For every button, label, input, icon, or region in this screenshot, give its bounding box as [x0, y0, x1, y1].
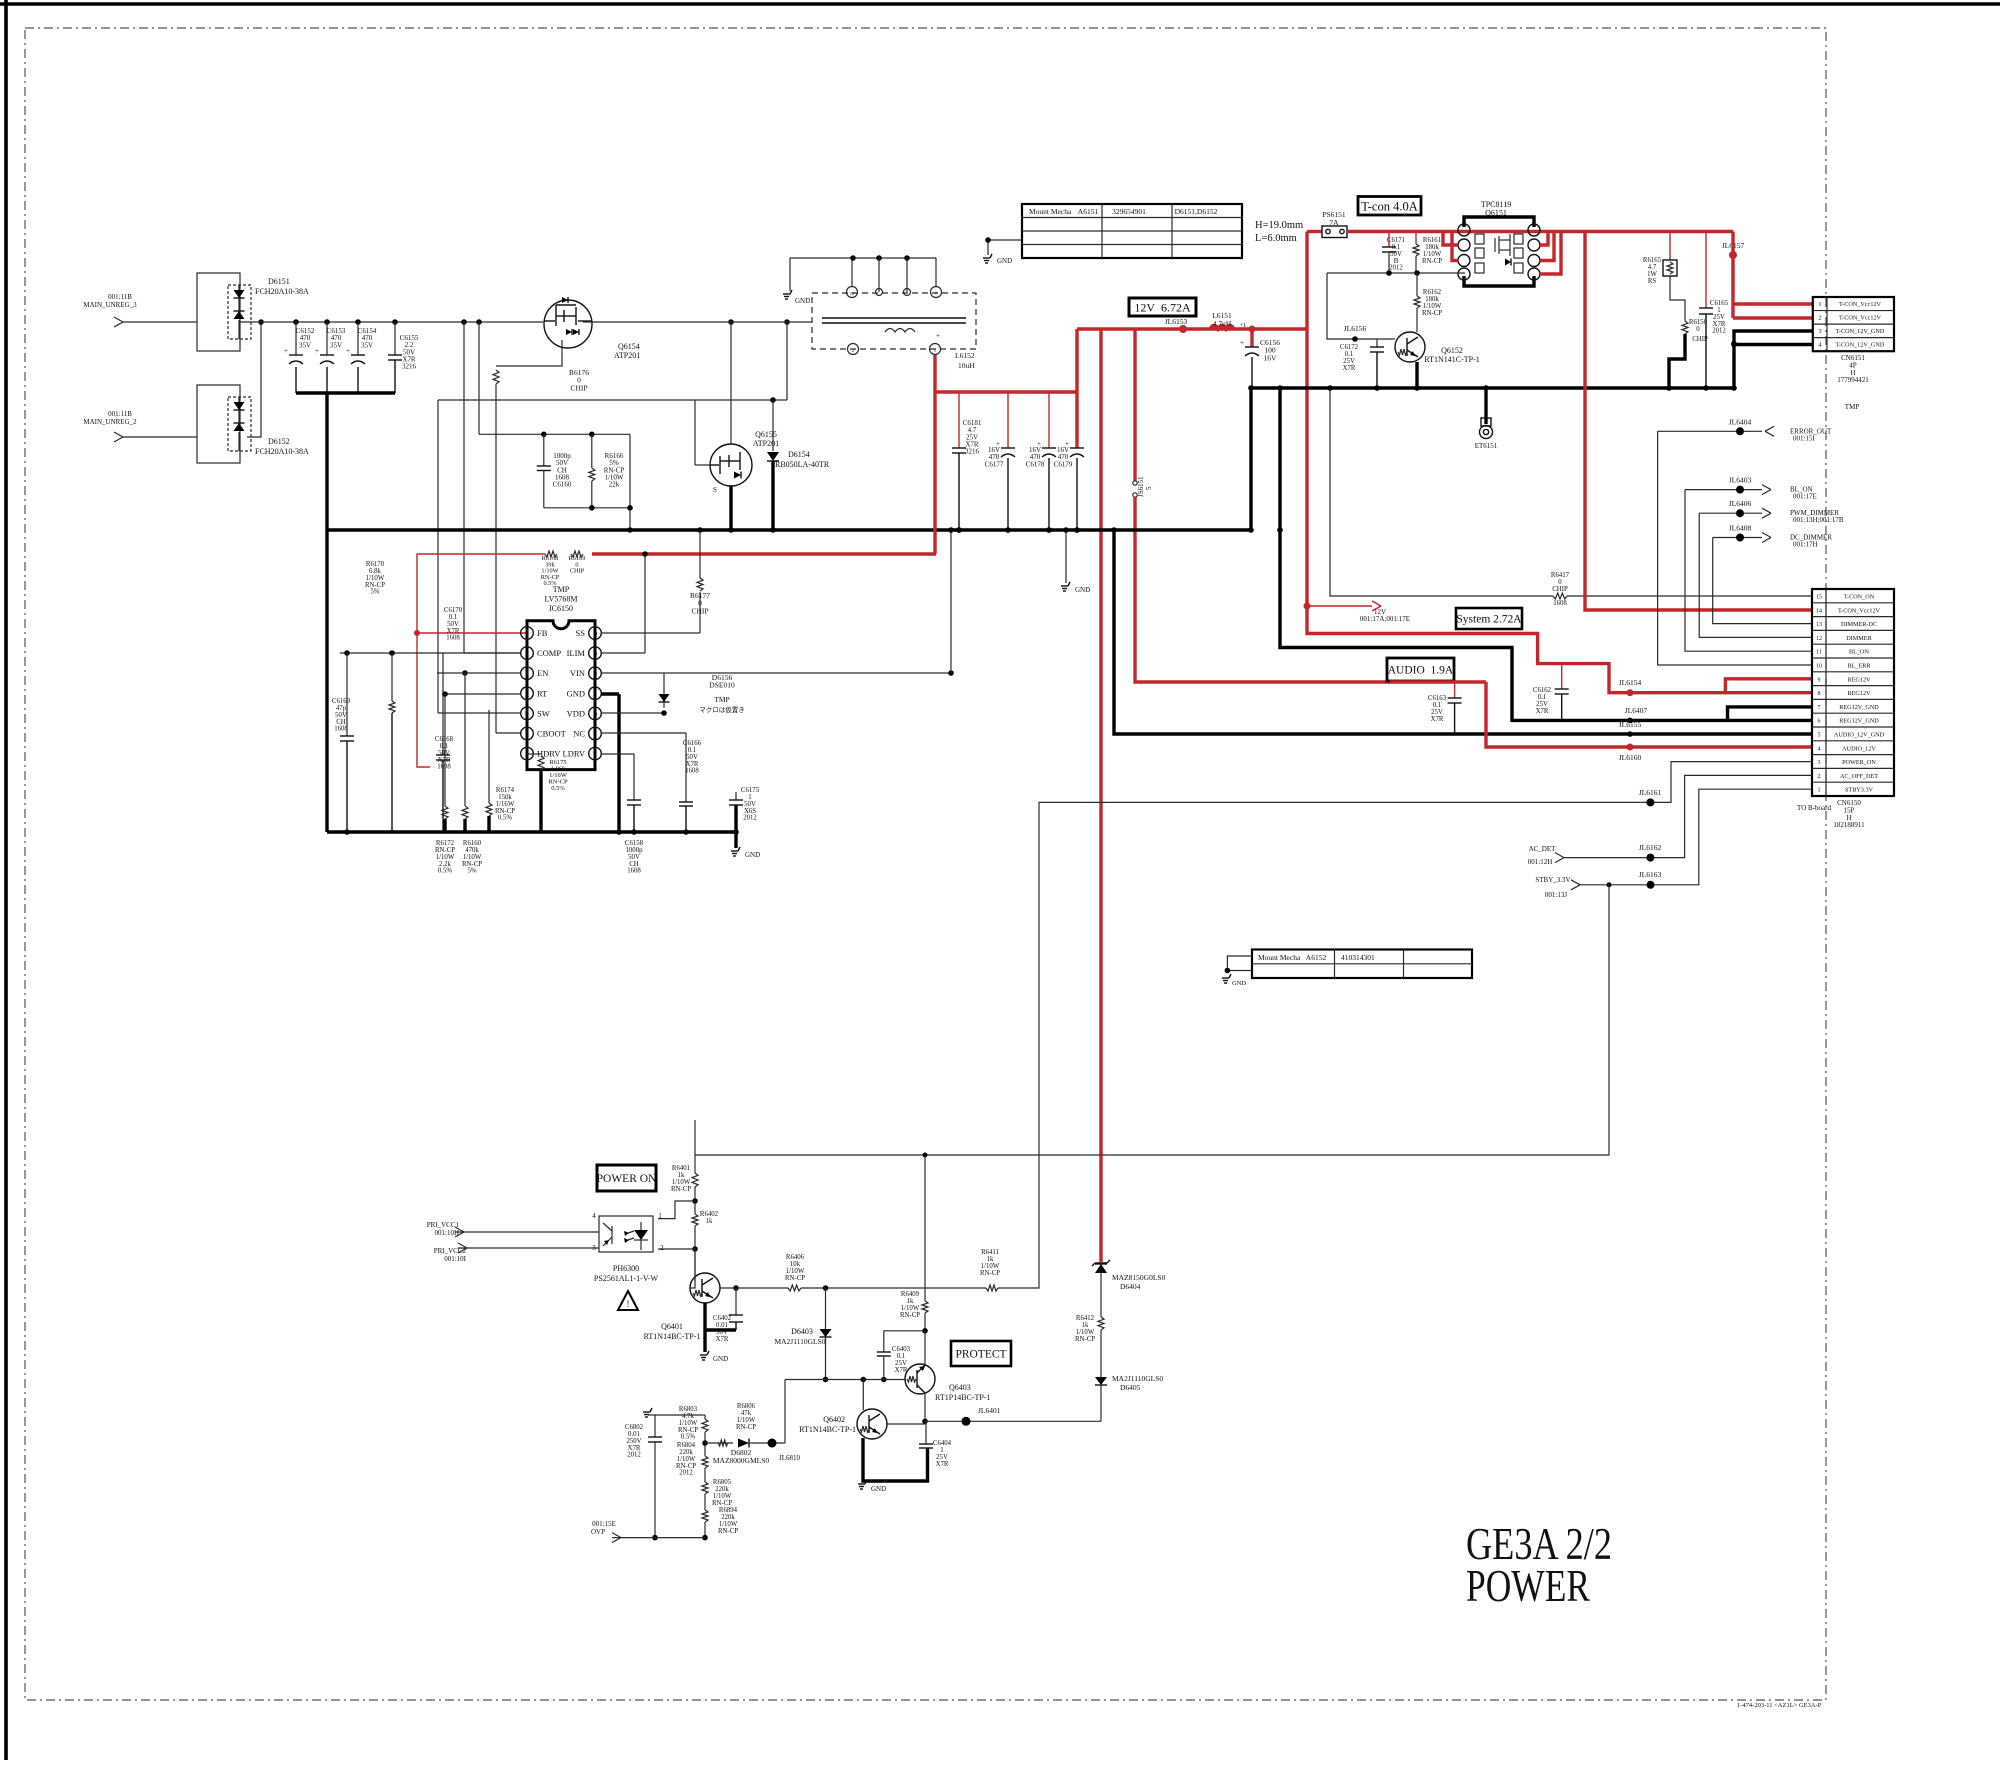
- svg-text:PROTECT: PROTECT: [955, 1349, 1006, 1361]
- svg-text:0.5%: 0.5%: [438, 868, 452, 875]
- svg-text:3: 3: [1818, 760, 1821, 766]
- svg-text:FB: FB: [537, 628, 548, 638]
- svg-text:177994421: 177994421: [1837, 376, 1869, 384]
- svg-text:329654901: 329654901: [1112, 207, 1146, 216]
- svg-text:RN-CP: RN-CP: [785, 1275, 805, 1282]
- svg-text:RN-CP: RN-CP: [718, 1528, 738, 1535]
- svg-text:2: 2: [852, 348, 854, 353]
- svg-text:JL6153: JL6153: [1165, 317, 1188, 326]
- svg-text:+1: +1: [1240, 323, 1246, 329]
- svg-text:RN-CP: RN-CP: [671, 1186, 691, 1193]
- svg-text:SS: SS: [576, 628, 586, 638]
- svg-text:MAIN_UNREG_2: MAIN_UNREG_2: [83, 418, 137, 426]
- svg-text:4.7uH: 4.7uH: [1213, 319, 1232, 328]
- svg-text:14: 14: [1816, 608, 1822, 614]
- svg-text:JL6404: JL6404: [1729, 417, 1752, 426]
- svg-text:BL_ON: BL_ON: [1849, 649, 1869, 656]
- svg-text:STBY_3.3V: STBY_3.3V: [1535, 876, 1570, 884]
- svg-text:2: 2: [660, 1244, 664, 1252]
- svg-text:D6403: D6403: [791, 1327, 813, 1336]
- svg-text:10: 10: [593, 711, 598, 716]
- svg-text:POWER_ON: POWER_ON: [1842, 759, 1876, 766]
- svg-text:D6152: D6152: [268, 437, 290, 446]
- svg-text:7A: 7A: [1329, 218, 1339, 227]
- svg-text:GND: GND: [745, 851, 760, 859]
- svg-text:RB050LA-40TR: RB050LA-40TR: [775, 460, 830, 469]
- svg-text:0: 0: [1696, 326, 1700, 333]
- svg-text:GND: GND: [1232, 980, 1246, 987]
- svg-text:001:13H;001:17B: 001:13H;001:17B: [1793, 516, 1844, 524]
- svg-text:STBY3.3V: STBY3.3V: [1845, 787, 1874, 794]
- svg-text:S: S: [713, 486, 717, 494]
- svg-text:2012: 2012: [679, 1470, 693, 1477]
- svg-text:+: +: [1240, 339, 1244, 347]
- svg-text:410314301: 410314301: [1341, 953, 1375, 962]
- svg-text:DIMMER: DIMMER: [1846, 635, 1872, 642]
- svg-text:5%: 5%: [467, 868, 476, 875]
- svg-text:2: 2: [1818, 774, 1821, 780]
- svg-text:1: 1: [1818, 301, 1821, 308]
- svg-text:JL6810: JL6810: [779, 1454, 801, 1462]
- svg-text:PS2561AL1-1-V-W: PS2561AL1-1-V-W: [594, 1274, 659, 1283]
- svg-text:!: !: [627, 1299, 630, 1309]
- svg-text:16V: 16V: [1264, 353, 1278, 362]
- svg-text:JS6151: JS6151: [1137, 476, 1145, 497]
- svg-text:FCH20A10-38A: FCH20A10-38A: [255, 287, 309, 296]
- svg-text:001:12H: 001:12H: [1528, 858, 1553, 866]
- svg-text:VIN: VIN: [570, 668, 585, 678]
- svg-text:AUDIO_12V_GND: AUDIO_12V_GND: [1834, 732, 1885, 739]
- svg-text:TMP: TMP: [553, 585, 570, 594]
- svg-text:REG12V: REG12V: [1847, 676, 1871, 683]
- svg-text:RS: RS: [1648, 278, 1657, 285]
- svg-text:T-CON_Vcc12V: T-CON_Vcc12V: [1839, 301, 1882, 308]
- svg-text:DIMMER-DC: DIMMER-DC: [1841, 621, 1877, 628]
- svg-text:T-CON_12V_GND: T-CON_12V_GND: [1836, 342, 1885, 349]
- svg-text:GND: GND: [567, 688, 585, 698]
- svg-text:001:11B: 001:11B: [108, 410, 132, 418]
- svg-text:Q6155: Q6155: [755, 430, 777, 439]
- svg-text:REG12V: REG12V: [1847, 690, 1871, 697]
- svg-text:System 2.72A: System 2.72A: [1456, 614, 1522, 626]
- svg-text:CHIP: CHIP: [570, 568, 585, 575]
- svg-text:COMP: COMP: [537, 648, 561, 658]
- svg-text:001:17A;001:17E: 001:17A;001:17E: [1360, 615, 1410, 623]
- svg-text:X7R: X7R: [1343, 365, 1356, 372]
- svg-text:2012: 2012: [743, 815, 757, 822]
- svg-text:Mount Mecha: Mount Mecha: [1258, 953, 1301, 962]
- svg-text:6: 6: [1818, 719, 1821, 725]
- svg-text:1608: 1608: [685, 768, 699, 775]
- svg-text:RT: RT: [537, 688, 548, 698]
- svg-text:001:10H: 001:10H: [435, 1229, 460, 1237]
- svg-text:X7R: X7R: [1431, 716, 1444, 723]
- svg-text:TO B-board: TO B-board: [1797, 804, 1831, 812]
- svg-text:CHIP: CHIP: [570, 383, 587, 392]
- svg-text:182188911: 182188911: [1833, 821, 1865, 829]
- svg-text:1: 1: [658, 1212, 662, 1220]
- svg-text:PRI_VCC1: PRI_VCC1: [427, 1221, 460, 1229]
- svg-text:JL6160: JL6160: [1619, 753, 1642, 762]
- svg-text:T-CON_Vcc12V: T-CON_Vcc12V: [1838, 607, 1881, 614]
- svg-text:MAZ8150G0LS0: MAZ8150G0LS0: [1112, 1273, 1166, 1282]
- svg-text:AUDIO_12V: AUDIO_12V: [1842, 745, 1876, 752]
- svg-text:POWER ON: POWER ON: [597, 1173, 657, 1185]
- svg-text:Q6401: Q6401: [661, 1322, 683, 1331]
- svg-text:3216: 3216: [965, 448, 980, 456]
- svg-text:Mount Mecha: Mount Mecha: [1029, 207, 1072, 216]
- svg-text:マクロは仮置き: マクロは仮置き: [699, 705, 745, 714]
- svg-text:D6154: D6154: [788, 450, 810, 459]
- svg-text:35V: 35V: [330, 341, 342, 349]
- svg-text:T-con 4.0A: T-con 4.0A: [1361, 199, 1417, 213]
- svg-text:X7R: X7R: [936, 1461, 949, 1468]
- svg-text:AUDIO 1.9A: AUDIO 1.9A: [1388, 665, 1454, 677]
- svg-text:1608: 1608: [627, 868, 641, 875]
- svg-text:LV5768M: LV5768M: [544, 595, 577, 604]
- svg-text:D6151,D6152: D6151,D6152: [1175, 207, 1218, 216]
- svg-text:+: +: [315, 347, 319, 355]
- svg-text:X7R: X7R: [1536, 708, 1549, 715]
- svg-text:13: 13: [1816, 622, 1822, 628]
- svg-text:RN-CP: RN-CP: [980, 1270, 1000, 1277]
- svg-text:1-474-203-11 <AZ1L> GE3A-P: 1-474-203-11 <AZ1L> GE3A-P: [1737, 1702, 1822, 1709]
- svg-text:2: 2: [1818, 315, 1821, 322]
- svg-text:3: 3: [1818, 328, 1821, 335]
- svg-text:12: 12: [1816, 636, 1822, 642]
- svg-text:5: 5: [1818, 733, 1821, 739]
- svg-text:10: 10: [850, 291, 855, 296]
- svg-text:JL6163: JL6163: [1639, 870, 1662, 879]
- svg-text:L6152: L6152: [955, 351, 975, 360]
- svg-text:D6405: D6405: [1120, 1383, 1141, 1392]
- svg-text:+: +: [346, 347, 350, 355]
- svg-text:MAIN_UNREG_3: MAIN_UNREG_3: [83, 301, 137, 309]
- svg-text:AC_OFF_DET: AC_OFF_DET: [1840, 773, 1878, 780]
- svg-text:1: 1: [526, 631, 528, 636]
- svg-text:JL6401: JL6401: [978, 1406, 1001, 1415]
- svg-text:VDD: VDD: [567, 708, 585, 718]
- svg-text:AC_DET: AC_DET: [1529, 845, 1557, 853]
- svg-text:RT1N14BC-TP-1: RT1N14BC-TP-1: [799, 1425, 856, 1434]
- svg-text:PH6300: PH6300: [613, 1264, 639, 1273]
- svg-text:GND: GND: [997, 257, 1012, 265]
- svg-text:GND: GND: [871, 1485, 886, 1493]
- svg-text:2012: 2012: [627, 1452, 641, 1459]
- svg-text:0.5%: 0.5%: [551, 785, 565, 792]
- svg-text:D6404: D6404: [1120, 1282, 1141, 1291]
- svg-text:9: 9: [1818, 677, 1821, 683]
- svg-text:001:15I: 001:15I: [1793, 434, 1815, 442]
- svg-text:RN-CP: RN-CP: [736, 1424, 756, 1431]
- svg-text:REG12V_GND: REG12V_GND: [1839, 718, 1879, 725]
- svg-text:1608: 1608: [446, 635, 460, 642]
- svg-text:FCH20A10-38A: FCH20A10-38A: [255, 447, 309, 456]
- svg-text:JL6403: JL6403: [1729, 476, 1752, 485]
- svg-text:8: 8: [1818, 691, 1821, 697]
- svg-text:DSE010: DSE010: [709, 681, 735, 690]
- svg-text:5: 5: [1145, 486, 1153, 490]
- svg-text:2: 2: [526, 651, 528, 656]
- svg-text:RN-CP: RN-CP: [1075, 1336, 1095, 1343]
- svg-text:RT1P14BC-TP-1: RT1P14BC-TP-1: [935, 1393, 991, 1402]
- svg-text:4: 4: [1818, 746, 1821, 752]
- svg-text:C6178: C6178: [1026, 460, 1045, 468]
- svg-text:L=6.0mm: L=6.0mm: [1255, 233, 1297, 244]
- svg-text:11: 11: [1816, 650, 1822, 656]
- svg-text:REG12V_GND: REG12V_GND: [1839, 704, 1879, 711]
- svg-text:22k: 22k: [609, 481, 620, 489]
- svg-text:Q6152: Q6152: [1441, 346, 1463, 355]
- svg-text:7: 7: [1818, 705, 1821, 711]
- svg-text:15: 15: [1816, 595, 1822, 601]
- svg-text:LDRV: LDRV: [563, 749, 586, 759]
- svg-text:EN: EN: [537, 668, 548, 678]
- svg-text:+: +: [284, 347, 288, 355]
- svg-text:T-CON_ON: T-CON_ON: [1844, 594, 1875, 601]
- svg-text:OVP: OVP: [591, 1528, 605, 1536]
- svg-text:3216: 3216: [402, 363, 417, 371]
- svg-text:Q6402: Q6402: [823, 1415, 845, 1424]
- svg-text:2012: 2012: [1712, 328, 1726, 335]
- svg-text:JL6161: JL6161: [1639, 788, 1662, 797]
- svg-text:Q6154: Q6154: [618, 342, 640, 351]
- svg-text:001:11B: 001:11B: [108, 293, 132, 301]
- svg-text:C6177: C6177: [985, 460, 1004, 468]
- svg-text:12V 6.72A: 12V 6.72A: [1134, 300, 1191, 314]
- svg-text:11: 11: [593, 691, 597, 696]
- svg-text:JL6162: JL6162: [1639, 843, 1662, 852]
- svg-text:MA2J1110GLS0: MA2J1110GLS0: [1112, 1374, 1163, 1383]
- svg-text:RT1N141C-TP-1: RT1N141C-TP-1: [1424, 355, 1480, 364]
- svg-text:JL6408: JL6408: [1729, 524, 1752, 533]
- svg-text:RN-CP: RN-CP: [712, 1500, 732, 1507]
- svg-text:RN-CP: RN-CP: [1422, 310, 1442, 317]
- svg-text:GND: GND: [1075, 586, 1090, 594]
- svg-text:ATP201: ATP201: [614, 351, 640, 360]
- svg-text:1608: 1608: [437, 764, 451, 771]
- svg-text:35V: 35V: [299, 341, 311, 349]
- svg-text:13: 13: [593, 651, 598, 656]
- svg-text:C6160: C6160: [553, 481, 572, 489]
- svg-text:14: 14: [593, 631, 598, 636]
- svg-text:A6152: A6152: [1306, 953, 1327, 962]
- svg-text:TMP: TMP: [1845, 403, 1860, 411]
- svg-text:ATP201: ATP201: [753, 439, 779, 448]
- svg-text:H=19.0mm: H=19.0mm: [1255, 220, 1303, 231]
- svg-text:0.5%: 0.5%: [681, 1434, 695, 1441]
- svg-text:1608: 1608: [1553, 600, 1567, 607]
- svg-text:10: 10: [1816, 664, 1822, 670]
- svg-text:GND: GND: [795, 297, 810, 305]
- svg-text:NC: NC: [573, 729, 585, 739]
- svg-text:JL6154: JL6154: [1619, 678, 1642, 687]
- svg-text:001:15E: 001:15E: [592, 1520, 616, 1528]
- svg-text:4: 4: [592, 1212, 596, 1220]
- svg-text:0.5%: 0.5%: [498, 815, 512, 822]
- svg-text:5%: 5%: [370, 589, 379, 596]
- svg-text:35V: 35V: [361, 341, 373, 349]
- svg-text:CHIP: CHIP: [1552, 586, 1568, 593]
- svg-text:SW: SW: [537, 708, 550, 718]
- svg-text:001:17E: 001:17E: [1793, 493, 1817, 501]
- svg-text:CHIP: CHIP: [691, 606, 708, 615]
- svg-text:X7R: X7R: [716, 1336, 729, 1343]
- svg-text:2012: 2012: [1389, 265, 1403, 272]
- svg-text:GND: GND: [713, 1355, 728, 1363]
- svg-text:1608: 1608: [334, 726, 348, 733]
- svg-text:BL_ERR: BL_ERR: [1847, 663, 1871, 670]
- svg-text:C6179: C6179: [1054, 460, 1073, 468]
- svg-text:TMP: TMP: [714, 695, 729, 704]
- svg-text:A6151: A6151: [1078, 207, 1099, 216]
- svg-text:12: 12: [593, 671, 598, 676]
- svg-text:001:10I: 001:10I: [444, 1255, 466, 1263]
- svg-text:ET6151: ET6151: [1475, 442, 1498, 450]
- svg-text:001:17H: 001:17H: [1793, 541, 1818, 549]
- svg-text:T-CON_12V_GND: T-CON_12V_GND: [1836, 328, 1885, 335]
- svg-text:T-CON_Vcc12V: T-CON_Vcc12V: [1839, 315, 1882, 322]
- svg-text:Q6403: Q6403: [949, 1383, 971, 1392]
- svg-text:JL6156: JL6156: [1344, 324, 1367, 333]
- svg-text:RN-CP: RN-CP: [900, 1312, 920, 1319]
- svg-text:1: 1: [1818, 788, 1821, 794]
- svg-text:POWER: POWER: [1466, 1561, 1590, 1611]
- svg-text:JL6406: JL6406: [1729, 499, 1752, 508]
- svg-text:D6151: D6151: [268, 277, 290, 286]
- svg-text:RN-CP: RN-CP: [1422, 258, 1442, 265]
- svg-text:CBOOT: CBOOT: [537, 729, 567, 739]
- svg-text:MAZ8000GMLS0: MAZ8000GMLS0: [713, 1456, 770, 1465]
- svg-text:001:13J: 001:13J: [1545, 891, 1567, 899]
- svg-text:+: +: [936, 332, 940, 340]
- svg-text:IC6150: IC6150: [549, 604, 573, 613]
- svg-text:RT1N14BC-TP-1: RT1N14BC-TP-1: [644, 1332, 701, 1341]
- svg-text:ILIM: ILIM: [567, 648, 586, 658]
- svg-text:JL6407: JL6407: [1625, 706, 1648, 715]
- svg-text:MA2J1110GLS0: MA2J1110GLS0: [774, 1337, 825, 1346]
- svg-text:1k: 1k: [706, 1218, 713, 1225]
- svg-text:PRI_VCC2: PRI_VCC2: [434, 1247, 467, 1255]
- svg-text:10uH: 10uH: [958, 361, 975, 370]
